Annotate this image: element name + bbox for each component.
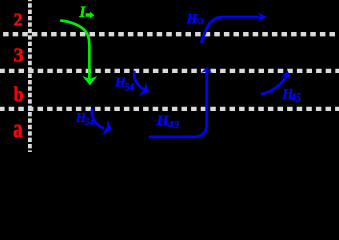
pump arrow I (green curve) xyxy=(61,21,97,86)
label a xyxy=(13,114,23,143)
level line 3 (dashed) xyxy=(0,69,339,73)
label H53 (blue) xyxy=(186,11,205,26)
svg-text:3: 3 xyxy=(14,45,24,67)
label 3 xyxy=(14,45,24,67)
label b xyxy=(14,82,24,106)
vertical dashed axis xyxy=(28,0,32,155)
label I (green) xyxy=(78,2,94,21)
svg-text:I: I xyxy=(78,2,86,21)
label H45 (blue) xyxy=(281,86,301,104)
svg-text:54: 54 xyxy=(85,117,95,127)
svg-text:54: 54 xyxy=(125,79,134,93)
transition arrow H53 (blue, 3 to 2, curving up then right) xyxy=(202,13,267,42)
transition arrow H43 (blue J-curve, a to 3) xyxy=(150,67,212,137)
label H43 (blue) xyxy=(155,113,179,131)
svg-text:2: 2 xyxy=(14,10,23,30)
svg-text:a: a xyxy=(13,114,23,143)
label H54 (blue) xyxy=(114,75,134,94)
level line b (dashed) xyxy=(0,107,339,111)
svg-text:43: 43 xyxy=(167,119,180,131)
svg-text:45: 45 xyxy=(290,90,301,104)
transition arrow H5b (blue small swoop from line b) xyxy=(92,110,112,136)
label 2 xyxy=(14,10,23,30)
transition arrow H45 (blue, b up to 3) xyxy=(262,71,291,94)
svg-text:b: b xyxy=(14,82,24,106)
transition arrow H54 (blue small swoop from line 3) xyxy=(134,72,149,96)
level line 2 (dashed) xyxy=(0,32,339,36)
label H5b (blue) xyxy=(75,110,95,127)
svg-text:53: 53 xyxy=(195,18,205,26)
